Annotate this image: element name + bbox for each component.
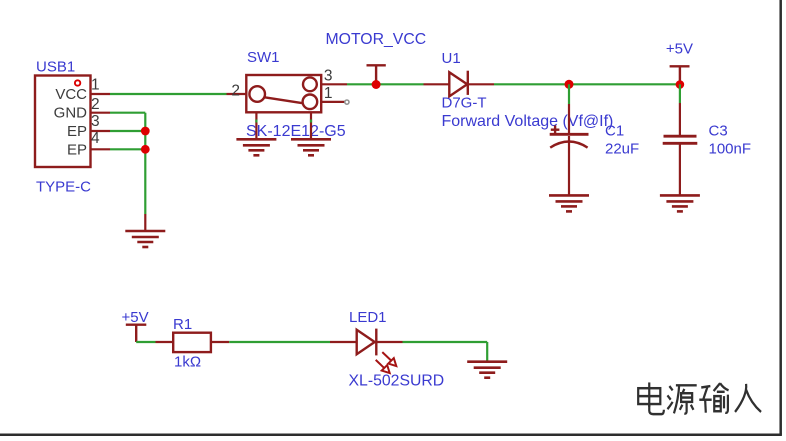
svg-text:LED1: LED1	[349, 309, 387, 326]
svg-text:3: 3	[324, 68, 333, 85]
svg-text:1: 1	[324, 85, 333, 102]
switch SW1 body	[246, 75, 321, 112]
wire LED1 to ground	[403, 341, 488, 343]
ground under C1	[549, 195, 589, 211]
no-connect marker on SW1.1	[345, 100, 349, 104]
USB1 pin 4 stub	[91, 148, 111, 150]
diode U1	[424, 71, 495, 97]
SW1 pin 3 stub	[321, 83, 347, 85]
svg-text:1: 1	[91, 77, 100, 94]
LED1 arrow 1	[382, 352, 396, 366]
wire USB1.2 (GND) horizontal	[110, 112, 145, 114]
svg-text:100nF: 100nF	[709, 141, 752, 158]
ground under USB	[125, 231, 165, 247]
svg-text:MOTOR_VCC: MOTOR_VCC	[326, 31, 427, 48]
svg-text:EP: EP	[67, 123, 87, 140]
LED1 arrow 2	[376, 360, 390, 373]
SW1 leg to left ground	[255, 112, 257, 139]
svg-text:1kΩ: 1kΩ	[174, 354, 201, 371]
svg-text:VCC: VCC	[55, 86, 87, 103]
net port MOTOR_VCC	[367, 65, 386, 84]
源	[667, 385, 696, 413]
输	[699, 383, 728, 413]
SW1 pin 1 stub (no connect)	[321, 101, 344, 103]
title 电源输入 (drawn strokes)	[638, 382, 761, 414]
wire dash on left leg	[255, 120, 257, 123]
junction at C1	[565, 80, 574, 89]
wire USB1.4 (EP)	[110, 148, 145, 150]
svg-text:SK-12E12-G5: SK-12E12-G5	[246, 123, 346, 140]
wire U1 to junctions	[494, 83, 680, 85]
svg-text:Forward Voltage (Vf@If): Forward Voltage (Vf@If)	[442, 113, 614, 130]
SW1 pin 2 stub	[227, 93, 247, 95]
svg-text:C3: C3	[709, 123, 728, 140]
wire +5V to R1	[136, 341, 155, 343]
power port +5V (top right)	[670, 66, 690, 84]
svg-text:2: 2	[231, 82, 240, 99]
ground lead under USB	[144, 214, 146, 231]
junction at MOTOR_VCC	[372, 80, 381, 89]
wire R1 to LED1	[229, 341, 330, 343]
svg-text:GND: GND	[54, 105, 88, 122]
svg-text:TYPE-C: TYPE-C	[36, 179, 91, 196]
svg-text:2: 2	[91, 96, 100, 113]
wire junction down to C1	[568, 84, 570, 104]
resistor R1	[156, 333, 230, 352]
wire down to ground	[486, 342, 488, 362]
wire SW1.3 to diode U1	[347, 83, 424, 85]
svg-text:SW1: SW1	[247, 49, 280, 66]
USB1 pin 2 stub	[91, 112, 111, 114]
LED LED1	[330, 329, 403, 356]
junction at EP pin 3	[141, 127, 150, 136]
电	[638, 382, 664, 414]
capacitor C3	[663, 103, 698, 195]
svg-text:22uF: 22uF	[605, 141, 639, 158]
USB1 pin-1 marker circle	[75, 80, 80, 85]
svg-text:+5V: +5V	[122, 309, 149, 326]
svg-text:C1: C1	[605, 123, 624, 140]
svg-text:3: 3	[91, 113, 100, 130]
wire dash on right leg	[310, 120, 312, 123]
svg-text:USB1: USB1	[36, 59, 75, 76]
capacitor C1 (polarized)	[550, 104, 589, 195]
ground under SW1 right	[291, 139, 331, 155]
svg-text:XL-502SURD: XL-502SURD	[349, 373, 445, 390]
svg-text:4: 4	[91, 130, 100, 147]
SW1 leg to right ground	[310, 112, 312, 139]
junction at +5V / C3	[676, 80, 685, 89]
USB1 pin 1 stub	[91, 93, 111, 95]
wire junction down to C3	[679, 84, 681, 103]
svg-text:+5V: +5V	[666, 41, 693, 58]
svg-text:D7G-T: D7G-T	[442, 95, 487, 112]
svg-text:EP: EP	[67, 142, 87, 159]
ground under SW1 left	[236, 139, 276, 155]
ground at LED return	[467, 362, 507, 378]
wire GND vertical	[144, 113, 146, 214]
connector USB1 body	[35, 76, 91, 168]
入	[735, 384, 761, 412]
wire USB1.3 (EP)	[110, 130, 145, 132]
wire USB1.1 to SW1.2	[110, 93, 227, 95]
USB1 pin 3 stub	[91, 130, 111, 132]
svg-text:U1: U1	[442, 50, 461, 67]
svg-text:R1: R1	[173, 316, 192, 333]
power port +5V (row 2)	[126, 325, 147, 342]
junction at EP pin 4	[141, 145, 150, 154]
ground under C3	[660, 195, 700, 211]
